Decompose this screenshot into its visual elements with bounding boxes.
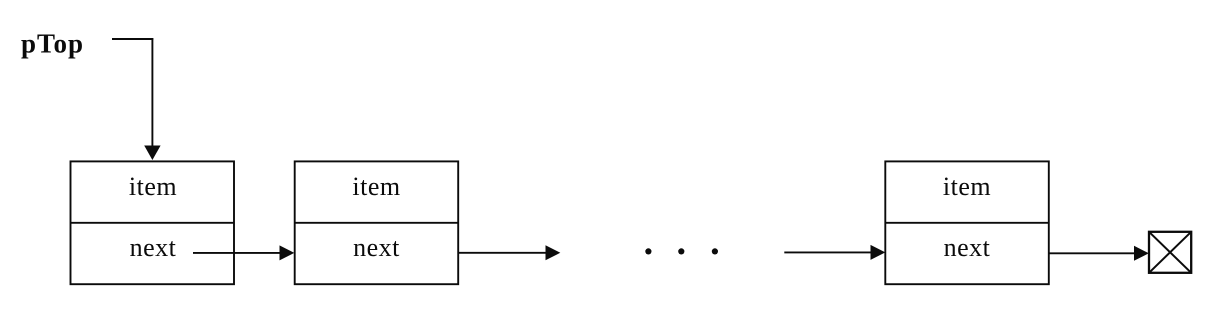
svg-text:pTop: pTop: [21, 29, 84, 59]
wire node1.next to node2: [193, 252, 281, 254]
svg-text:item: item: [943, 172, 991, 201]
ellipsis dot 2: [678, 248, 684, 254]
svg-text:next: next: [130, 233, 177, 262]
svg-text:item: item: [129, 172, 177, 201]
svg-text:item: item: [352, 172, 400, 201]
ellipsis dot 3: [712, 248, 718, 254]
arrowhead into node 2: [280, 245, 295, 260]
ellipsis dot 1: [645, 248, 651, 254]
wire node2.next toward ellipsis: [458, 252, 546, 254]
arrowhead into node 3: [871, 245, 886, 260]
node box 2: [295, 161, 459, 284]
arrowhead into node 1: [144, 146, 160, 161]
svg-text:next: next: [944, 233, 991, 262]
arrowhead of wire from node 2: [546, 245, 561, 260]
wire node3.next to null: [1049, 252, 1135, 254]
svg-text:next: next: [353, 233, 400, 262]
node box 1: [71, 161, 235, 284]
null terminator box: [1149, 232, 1191, 273]
wire from pTop (vertical segment): [151, 38, 153, 147]
arrowhead into null box: [1134, 246, 1149, 261]
wire from pTop (horizontal segment): [112, 38, 153, 40]
node box 3: [885, 161, 1049, 284]
wire from ellipsis into node 3: [784, 251, 871, 253]
